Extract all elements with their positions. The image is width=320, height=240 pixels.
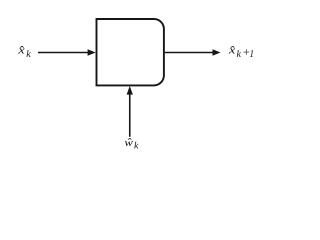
svg-text:x̂: x̂	[17, 45, 25, 57]
svg-text:k: k	[237, 49, 242, 60]
svg-text:k: k	[134, 140, 139, 151]
svg-text:x̂: x̂	[228, 45, 236, 57]
svg-text:ŵ: ŵ	[124, 137, 133, 149]
svg-text:1: 1	[249, 49, 254, 60]
svg-text:k: k	[26, 49, 31, 60]
